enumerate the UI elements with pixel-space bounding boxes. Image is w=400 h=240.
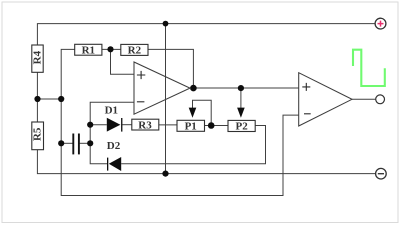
svg-text:R2: R2 xyxy=(128,45,142,57)
svg-text:P1: P1 xyxy=(185,121,197,133)
svg-text:R1: R1 xyxy=(82,44,95,56)
svg-text:R4: R4 xyxy=(31,50,43,64)
svg-text:P2: P2 xyxy=(235,121,248,133)
svg-text:D2: D2 xyxy=(107,140,121,152)
svg-text:R3: R3 xyxy=(138,120,152,132)
svg-text:D1: D1 xyxy=(105,104,118,116)
svg-text:R5: R5 xyxy=(31,127,43,141)
